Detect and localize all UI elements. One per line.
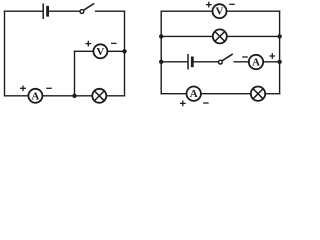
lamp L3 cross (253, 89, 263, 99)
junction dot bottom (left circuit) (72, 94, 76, 98)
battery B2 short thick plate (191, 58, 194, 66)
lamp L1 circle (92, 89, 106, 103)
ammeter A1 circle (28, 89, 42, 103)
wire bottom left to ammeter (161, 93, 186, 95)
svg-text:A: A (190, 88, 198, 100)
wire left vertical (right circuit) (160, 11, 162, 94)
wire junction to lamp (75, 95, 93, 97)
minus sign of V1 (112, 42, 116, 44)
switch S1 lever (84, 4, 94, 10)
lamp L2 cross (215, 32, 225, 42)
wire battery to switch (194, 61, 219, 63)
wire row2 lamp to right (227, 35, 280, 37)
wire voltmeter to right vertical (107, 50, 124, 52)
svg-text:A: A (31, 90, 39, 102)
wire switch to top-right corner (96, 10, 125, 12)
svg-text:V: V (216, 6, 224, 18)
wire switch to ammeter (234, 61, 249, 63)
junction dot row2 left (159, 34, 163, 38)
minus sign of A3 (204, 102, 208, 104)
svg-text:V: V (96, 46, 104, 58)
lamp L2 circle (213, 29, 227, 43)
wire voltmeter branch vertical (74, 51, 76, 96)
voltmeter V1 circle (93, 44, 107, 58)
wire lamp to bottom-right corner (106, 95, 124, 97)
wire ammeter to junction (42, 95, 74, 97)
plus sign of V2 (207, 2, 211, 6)
wire battery to switch (49, 10, 80, 12)
minus sign of V2 (230, 3, 234, 5)
ammeter A2 circle (249, 55, 263, 69)
lamp L3 circle (251, 87, 265, 101)
switch S2 pivot circle (219, 60, 223, 64)
junction dot row3 right (277, 60, 281, 64)
wire branch to voltmeter (75, 50, 94, 52)
lamp L1 cross (94, 91, 104, 101)
switch S2 lever (222, 54, 232, 60)
wire right vertical (left circuit) (124, 11, 126, 96)
wire bottom: left corner to ammeter (5, 95, 29, 97)
wire ammeter to right vertical (263, 61, 279, 63)
wire top to voltmeter (161, 10, 212, 12)
wire right vertical (right circuit) (279, 11, 281, 94)
plus sign of A2 (270, 54, 274, 58)
wire row3 left to battery (161, 61, 187, 63)
wire lamp to bottom-right corner (265, 93, 279, 95)
wire voltmeter to top-right corner (227, 10, 280, 12)
battery B1 short thick plate (46, 7, 49, 15)
svg-text:A: A (252, 57, 260, 69)
switch S1 pivot circle (80, 10, 84, 14)
ammeter A3 circle (187, 87, 201, 101)
plus sign of V1 (86, 41, 90, 45)
wire ammeter to lamp (201, 93, 251, 95)
wire top segment to battery (5, 10, 43, 12)
minus sign of A2 (243, 56, 247, 58)
junction dot row2 right (277, 34, 281, 38)
voltmeter V2 circle (213, 4, 227, 18)
wire left vertical (left circuit) (4, 11, 6, 96)
battery B1 long plate (42, 4, 44, 18)
battery B2 long plate (187, 55, 189, 69)
plus sign of A3 (181, 101, 185, 105)
junction dot right (left circuit) (122, 49, 126, 53)
wire row2 left to lamp (161, 35, 213, 37)
minus sign of A1 (47, 87, 51, 89)
junction dot row3 left (159, 60, 163, 64)
plus sign of A1 (21, 86, 25, 90)
